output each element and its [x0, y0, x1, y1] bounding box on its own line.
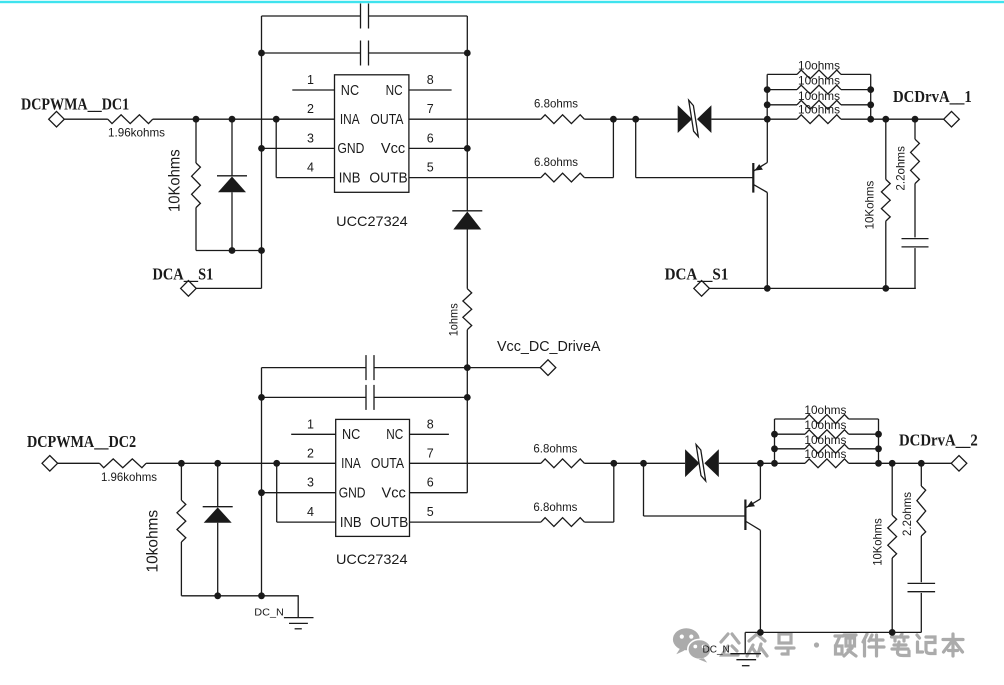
port DCA_S1 (right)	[694, 281, 710, 297]
svg-text:1: 1	[307, 73, 314, 87]
wire INA to INB tie B	[276, 463, 278, 522]
svg-text:DCPWMA__DC1: DCPWMA__DC1	[21, 95, 129, 113]
svg-text:GND: GND	[338, 140, 365, 157]
svg-text:1ohms: 1ohms	[447, 303, 461, 336]
port Vcc_DC_DriveA	[540, 360, 556, 376]
wire U2 pin 6 Vcc	[410, 492, 468, 494]
svg-text:GND: GND	[339, 485, 366, 502]
resistor R10 2.2ohms	[911, 139, 920, 183]
wire R21 to C6	[920, 536, 922, 582]
svg-text:5: 5	[427, 161, 434, 175]
resistor R3 6.8ohms	[541, 115, 585, 124]
wire U1 pin 4 INB	[276, 177, 334, 179]
watermark glyph bi	[892, 634, 910, 656]
wire port to R1	[64, 118, 108, 120]
resistor R11 1ohms	[463, 289, 472, 330]
svg-text:10ohms: 10ohms	[798, 74, 840, 88]
TVS diode D2 (bidirectional)	[678, 100, 712, 136]
svg-text:7: 7	[427, 446, 434, 460]
junction GND rail B / pin3	[258, 489, 265, 496]
junction bank left	[764, 86, 771, 93]
junction D1 top	[229, 116, 236, 123]
port DCPWMA_DC2	[42, 456, 58, 472]
svg-text:2: 2	[307, 446, 314, 460]
wire cap C1 left lead	[262, 15, 361, 17]
wire U2 pin 4 INB	[277, 521, 336, 523]
capacitor C4 (bypass)	[365, 355, 367, 380]
svg-text:Vcc: Vcc	[382, 485, 407, 502]
junction INA/INB tie B	[273, 460, 280, 467]
wire U2 pin 1 stub	[291, 433, 336, 435]
junction INA/INB tie	[273, 116, 280, 123]
watermark wechat icon	[673, 628, 700, 654]
svg-text:INA: INA	[340, 111, 360, 128]
wire Vcc rail to circuit B	[466, 330, 468, 493]
wire R21 top lead	[920, 463, 922, 486]
wire U1 pin 1 stub	[292, 89, 334, 91]
svg-text:NC: NC	[341, 82, 359, 99]
svg-text:5: 5	[427, 505, 434, 519]
junction bank right	[867, 86, 874, 93]
wire R15 to tie	[584, 521, 613, 523]
wire bank left vertical	[766, 74, 768, 119]
watermark glyph ying	[835, 635, 856, 656]
junction OUTA/OUTB tie B	[610, 460, 617, 467]
svg-text:3: 3	[307, 476, 314, 490]
svg-text:2.2ohms: 2.2ohms	[894, 146, 908, 191]
svg-text:10ohms: 10ohms	[804, 418, 846, 432]
port DCA_S1 (left)	[181, 281, 197, 297]
resistor R5 10ohms	[797, 70, 841, 79]
wire U1 pin 8 stub	[409, 89, 452, 91]
svg-text:OUTB: OUTB	[369, 169, 407, 186]
op-amp U2 UCC27324 body	[336, 419, 410, 536]
svg-text:4: 4	[307, 161, 314, 175]
resistor R19 10ohms	[805, 459, 849, 468]
wire bank row2 right	[841, 89, 871, 91]
resistor R1 1.96kohms	[108, 115, 153, 124]
wire R13 bottom lead	[180, 542, 182, 596]
capacitor C5 (bypass)	[365, 385, 367, 410]
resistor R15 6.8ohms	[541, 518, 585, 527]
svg-text:3: 3	[307, 131, 314, 145]
resistor R9 10Kohms	[881, 179, 890, 221]
wire C6 bottom lead	[920, 593, 922, 633]
wire rail corner	[914, 287, 917, 289]
junction C5 right	[464, 394, 471, 401]
wire OUTA/OUTB tie	[612, 119, 614, 177]
wire cap C1 right lead	[369, 15, 468, 17]
svg-text:DCDrvA__1: DCDrvA__1	[893, 88, 972, 106]
resistor R21 2.2ohms	[917, 486, 926, 536]
junction bank B right	[875, 445, 882, 452]
wire bank row3 left	[767, 104, 797, 106]
wire bank row4 right	[841, 118, 871, 120]
junction bank B left	[771, 445, 778, 452]
wire R2 bottom lead	[195, 208, 197, 251]
wire bank B row3 left	[775, 448, 806, 450]
resistor R17 10ohms	[805, 430, 849, 439]
wire U2 pin 3 GND	[262, 492, 336, 494]
wire base feed to Q1	[636, 177, 753, 179]
wire R3 to TVS D2	[584, 118, 677, 120]
junction bank B right / output	[875, 460, 882, 467]
svg-text:Vcc_DC_DriveA: Vcc_DC_DriveA	[497, 338, 601, 355]
wire bank B row1 left	[775, 418, 806, 420]
diode D3 (Vcc feed)	[452, 210, 482, 212]
wire right Vcc rail A upper	[466, 16, 468, 211]
port DCDrvA_1	[944, 111, 960, 127]
svg-text:10ohms: 10ohms	[804, 447, 846, 461]
svg-text:6.8ohms: 6.8ohms	[533, 500, 577, 514]
svg-text:1.96kohms: 1.96kohms	[101, 470, 157, 484]
svg-text:OUTA: OUTA	[371, 455, 404, 472]
wire shunt bottom bus	[196, 250, 262, 252]
junction D1 bottom	[229, 247, 236, 254]
watermark glyph zhong	[747, 634, 767, 656]
cyan top border	[0, 1, 1004, 3]
capacitor C2 (bypass)	[360, 41, 362, 66]
junction bank left	[764, 101, 771, 108]
wire cap C4 left lead	[262, 367, 367, 369]
wire bottom rail A	[709, 287, 915, 289]
diode D1	[217, 175, 247, 177]
junction bank B left	[771, 460, 778, 467]
wire bank B row1 right	[849, 418, 879, 420]
wire bank B row2 right	[849, 433, 879, 435]
svg-text:7: 7	[427, 102, 434, 116]
svg-text:OUTB: OUTB	[370, 514, 408, 531]
wire base feed vertical	[635, 119, 637, 177]
junction R9 top	[882, 116, 889, 123]
svg-text:6.8ohms: 6.8ohms	[534, 97, 578, 111]
wire D1 bottom lead	[231, 192, 233, 250]
wire bank row3 right	[841, 104, 871, 106]
resistor R7 10ohms	[797, 100, 841, 109]
wire base feed vertical B	[643, 463, 645, 516]
svg-text:8: 8	[427, 417, 434, 431]
wire D1 top lead	[231, 119, 233, 176]
svg-text:10ohms: 10ohms	[798, 103, 840, 117]
junction left rail / shunt bus	[258, 247, 265, 254]
junction Q1 collector / rail	[764, 285, 771, 292]
wire R10 to C3	[914, 184, 916, 238]
wire TVS to R bank	[711, 118, 767, 120]
svg-text:1.96kohms: 1.96kohms	[108, 125, 165, 139]
wire bank B right vertical	[878, 419, 880, 463]
svg-text:1: 1	[307, 417, 314, 431]
port DCPWMA_DC1	[49, 111, 65, 127]
svg-text:10ohms: 10ohms	[804, 433, 846, 447]
capacitor C3 (snubber)	[902, 238, 929, 240]
junction R9 / rail	[882, 285, 889, 292]
wire R9 top lead	[885, 119, 887, 179]
wire R10 top lead	[914, 119, 916, 139]
junction GND rail / pin3	[258, 145, 265, 152]
wire D3 to R11	[466, 230, 468, 289]
wire R2 top lead	[195, 119, 197, 163]
wire R14 to TVS D5	[584, 462, 685, 464]
svg-text:Vcc: Vcc	[381, 140, 406, 157]
svg-text:8: 8	[427, 73, 434, 87]
wire Q1 collector down	[766, 193, 768, 289]
junction OUTA/OUTB tie top	[610, 116, 617, 123]
wire shunt bottom bus B	[181, 595, 261, 597]
wire R1 to U1 INA	[153, 118, 335, 120]
junction Q2 emitter	[757, 460, 764, 467]
resistor R13 10kohms	[177, 500, 186, 542]
svg-text:OUTA: OUTA	[370, 111, 403, 128]
wire C3 bottom lead	[914, 248, 916, 288]
svg-text:DC_N: DC_N	[703, 645, 730, 656]
wire bank to port DCDrvA_1	[871, 118, 944, 120]
junction Vcc_DC_DriveA tap	[464, 364, 471, 371]
svg-text:INB: INB	[339, 169, 361, 186]
resistor R4 6.8ohms	[541, 173, 585, 182]
junction bank B left	[771, 431, 778, 438]
ground DC_N (left)	[262, 596, 314, 629]
junction base feed top	[632, 116, 639, 123]
wire bank right vertical	[870, 74, 872, 119]
wire OUTA to R3	[409, 118, 541, 120]
svg-text:DC_N: DC_N	[254, 608, 284, 619]
junction bank B right	[875, 431, 882, 438]
junction R21 top	[918, 460, 925, 467]
svg-text:10Kohms: 10Kohms	[871, 518, 885, 566]
wire bank B row3 right	[849, 448, 879, 450]
resistor R20 10Kohms	[888, 515, 897, 558]
svg-text:6.8ohms: 6.8ohms	[533, 442, 577, 456]
svg-text:NC: NC	[342, 426, 360, 443]
resistor R12 1.96kohms	[100, 459, 147, 468]
wire TVS to R bank B	[719, 462, 775, 464]
junction right rail / C2	[464, 50, 471, 57]
svg-text:2.2ohms: 2.2ohms	[900, 492, 914, 536]
wire R20 top lead	[891, 463, 893, 515]
watermark glyph gong	[721, 634, 739, 655]
junction D4 bottom	[214, 592, 221, 599]
svg-text:INB: INB	[340, 514, 362, 531]
svg-text:DCPWMA__DC2: DCPWMA__DC2	[27, 433, 136, 451]
svg-text:UCC27324: UCC27324	[336, 213, 408, 229]
port DCDrvA_2	[951, 456, 967, 472]
ground DC_N (right)	[730, 632, 761, 665]
resistor R16 10ohms	[805, 415, 849, 424]
watermark glyph jian	[863, 634, 884, 656]
wire R13 top lead	[180, 463, 182, 500]
wire Q2 emitter up	[759, 463, 761, 499]
svg-text:NC: NC	[386, 426, 403, 443]
junction R13 top	[178, 460, 185, 467]
svg-text:10ohms: 10ohms	[798, 58, 840, 72]
wire bank B to port DCDrvA_2	[879, 462, 952, 464]
wire cap C2 left lead	[262, 52, 361, 54]
resistor R6 10ohms	[797, 85, 841, 94]
wire DCA_S1 left lead	[196, 287, 261, 289]
wire cap C5 left lead	[262, 396, 367, 398]
wire port to R12	[58, 462, 100, 464]
wire OUTA to R14	[410, 462, 541, 464]
wire OUTA/OUTB tie B	[613, 463, 615, 522]
svg-text:NC: NC	[386, 82, 403, 99]
transistor Q1 (PNP)	[753, 163, 767, 193]
wire bottom rail B	[745, 631, 921, 633]
wire bank B left vertical	[774, 419, 776, 463]
wire Q1 emitter up	[766, 119, 768, 162]
wire left GND rail A	[261, 16, 263, 288]
junction left rail B / shunt bus	[258, 592, 265, 599]
capacitor C1 (bypass, top)	[360, 4, 362, 29]
junction Q2 collector / rail	[757, 629, 764, 636]
wire Q2 collector down	[759, 530, 761, 632]
capacitor C6 (snubber)	[908, 582, 936, 584]
junction bank right	[867, 101, 874, 108]
transistor Q2 (PNP)	[745, 499, 760, 530]
wire base feed to Q2	[644, 515, 745, 517]
wire bank row1 left	[767, 73, 797, 75]
wire cap C2 right lead	[369, 52, 468, 54]
junction Vcc rail / pin6	[464, 145, 471, 152]
svg-text:6.8ohms: 6.8ohms	[534, 155, 578, 169]
op-amp U1 UCC27324 body	[335, 75, 409, 193]
svg-text:10ohms: 10ohms	[798, 89, 840, 103]
svg-text:UCC27324: UCC27324	[336, 551, 408, 567]
junction Q1 emitter / bank	[764, 116, 771, 123]
wire bank B row4 right	[849, 462, 879, 464]
svg-text:2: 2	[307, 102, 314, 116]
diode D4	[203, 506, 233, 508]
wire R20 bottom lead	[891, 558, 893, 632]
svg-text:10Kohms: 10Kohms	[167, 149, 184, 212]
svg-text:INA: INA	[341, 455, 361, 472]
wire cap C4 right lead	[374, 367, 467, 369]
wire R4 to tie	[584, 177, 613, 179]
wire bank row1 right	[841, 73, 871, 75]
watermark glyph hao	[776, 634, 794, 654]
wire R12 to U2 INA	[146, 462, 336, 464]
watermark middle dot	[814, 642, 819, 647]
watermark glyph ji	[917, 635, 935, 654]
resistor R18 10ohms	[805, 444, 849, 453]
junction base feed B	[640, 460, 647, 467]
junction left rail B / C5	[258, 394, 265, 401]
wire bank row2 left	[767, 89, 797, 91]
junction R20 top	[889, 460, 896, 467]
watermark glyph ben	[943, 634, 963, 656]
wire bank B row2 left	[775, 433, 806, 435]
svg-text:DCA__S1: DCA__S1	[153, 265, 214, 283]
wire bank B row4 left	[775, 462, 806, 464]
junction R10 top	[912, 116, 919, 123]
wire D4 bottom lead	[217, 523, 219, 596]
wire INA to INB tie	[275, 119, 277, 177]
svg-text:DCA__S1: DCA__S1	[665, 266, 729, 284]
resistor R2 10Kohms	[192, 163, 201, 208]
wire OUTB to R4	[409, 177, 541, 179]
svg-text:10kohms: 10kohms	[144, 510, 161, 573]
svg-text:DCDrvA__2: DCDrvA__2	[899, 432, 978, 450]
svg-text:10ohms: 10ohms	[804, 403, 846, 417]
junction bank right / output	[867, 116, 874, 123]
junction R2 top	[193, 116, 200, 123]
junction R20 / rail	[889, 629, 896, 636]
wire U1 pin 6 Vcc	[409, 147, 467, 149]
wire U2 pin 8 stub	[410, 433, 449, 435]
junction D4 top	[214, 460, 221, 467]
svg-text:6: 6	[427, 131, 434, 145]
wire OUTB to R15	[410, 521, 541, 523]
svg-text:6: 6	[427, 476, 434, 490]
resistor R14 6.8ohms	[541, 459, 585, 468]
TVS diode D5 (bidirectional)	[685, 445, 719, 481]
resistor R8 10ohms	[797, 115, 841, 124]
wire to port Vcc_DC_DriveA	[467, 367, 540, 369]
svg-text:4: 4	[307, 505, 314, 519]
wire D4 top lead	[217, 463, 219, 506]
wire bank row4 left	[767, 118, 797, 120]
junction left rail / C2	[258, 50, 265, 57]
wire R9 bottom lead	[885, 221, 887, 288]
wire left GND rail B	[261, 368, 263, 596]
wire U1 pin 3 GND	[262, 147, 335, 149]
svg-text:10Kohms: 10Kohms	[863, 181, 877, 230]
wire cap C5 right lead	[374, 396, 467, 398]
